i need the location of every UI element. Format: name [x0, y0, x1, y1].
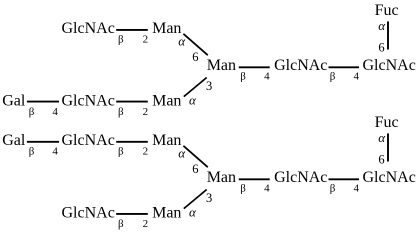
svg-text:β: β — [118, 218, 124, 230]
svg-text:4: 4 — [264, 71, 270, 83]
svg-text:β: β — [118, 34, 124, 46]
svg-text:β: β — [29, 106, 35, 118]
residue Man (structure 2, core branching mannose) — [207, 169, 236, 186]
alpha1-6 branch diagonal wire (structure 2) — [183, 146, 207, 167]
position label 2 (structure 2, 6-arm linkage) — [143, 146, 149, 158]
residue Fuc (structure 2, core fucose) — [375, 114, 399, 131]
residue Man (structure 1, 6-arm) — [152, 20, 181, 37]
svg-text:Fuc: Fuc — [375, 114, 399, 131]
svg-text:GlcNAc: GlcNAc — [363, 57, 416, 74]
alpha1-6 fucose vertical wire (structure 2) — [387, 133, 389, 161]
anomeric label beta (structure 1, 3-arm linkage) — [118, 106, 124, 118]
svg-text:Man: Man — [152, 20, 181, 37]
svg-text:GlcNAc: GlcNAc — [274, 169, 327, 186]
beta1-2 linkage line (structure 2, 6-arm GlcNAc-Man) — [116, 141, 148, 143]
position label 2 (structure 1, 6-arm linkage) — [143, 34, 149, 46]
svg-text:α: α — [189, 92, 197, 107]
anomeric label alpha (structure 2, fucose linkage) — [378, 130, 386, 145]
beta1-4 linkage line (structure 1, Gal-GlcNAc) — [27, 101, 59, 103]
beta1-2 linkage line (structure 2, 3-arm GlcNAc-Man) — [116, 213, 148, 215]
svg-text:Man: Man — [207, 57, 236, 74]
svg-text:α: α — [378, 130, 386, 145]
svg-text:6: 6 — [192, 50, 198, 64]
svg-text:4: 4 — [354, 183, 360, 195]
svg-text:β: β — [240, 183, 246, 195]
svg-text:4: 4 — [52, 106, 58, 118]
position label 4 (structure 2, Gal linkage) — [52, 146, 58, 158]
svg-text:GlcNAc: GlcNAc — [363, 169, 416, 186]
anomeric label beta (structure 1, core Man linkage) — [240, 71, 246, 83]
beta1-2 linkage line (structure 1, 6-arm GlcNAc-Man) — [116, 29, 148, 31]
anomeric label beta (structure 2, 6-arm linkage) — [118, 146, 124, 158]
svg-text:α: α — [378, 18, 386, 33]
beta1-4 linkage line (structure 2, Gal-GlcNAc) — [27, 141, 59, 143]
svg-text:Man: Man — [152, 93, 181, 110]
residue GlcNAc (structure 1, reducing-end GlcNAc) — [363, 57, 416, 74]
position label 4 (structure 2, core Man linkage) — [264, 183, 270, 195]
svg-text:3: 3 — [206, 191, 212, 205]
svg-text:β: β — [118, 106, 124, 118]
position label 4 (structure 1, core GlcNAc linkage) — [354, 71, 360, 83]
svg-text:GlcNAc: GlcNAc — [62, 20, 115, 37]
svg-text:2: 2 — [143, 218, 149, 230]
residue GlcNAc (structure 1, core GlcNAc II) — [274, 57, 327, 74]
residue Man (structure 1, 3-arm) — [152, 93, 181, 110]
svg-text:β: β — [330, 71, 336, 83]
svg-text:Fuc: Fuc — [375, 2, 399, 19]
anomeric label beta (structure 1, Gal linkage) — [29, 106, 35, 118]
position label 6 (structure 1, fucose linkage) — [378, 40, 384, 54]
anomeric label alpha (structure 1, alpha1-6 branch) — [178, 34, 186, 49]
svg-text:3: 3 — [206, 79, 212, 93]
alpha1-3 branch diagonal wire (structure 1) — [184, 78, 207, 97]
anomeric label beta (structure 1, 6-arm linkage) — [118, 34, 124, 46]
svg-text:6: 6 — [192, 162, 198, 176]
anomeric label beta (structure 2, core Man linkage) — [240, 183, 246, 195]
anomeric label alpha (structure 2, alpha1-6 branch) — [178, 146, 186, 161]
beta1-4 linkage line (structure 1, Man-GlcNAc core) — [239, 66, 270, 68]
position label 2 (structure 2, 3-arm linkage) — [143, 218, 149, 230]
svg-text:6: 6 — [378, 152, 384, 166]
residue GlcNAc (structure 2, 6-arm) — [62, 132, 115, 149]
residue Man (structure 2, 3-arm) — [152, 205, 181, 222]
residue Gal (structure 1, 3-arm) — [2, 93, 26, 110]
svg-text:GlcNAc: GlcNAc — [62, 132, 115, 149]
residue Man (structure 2, 6-arm) — [152, 132, 181, 149]
residue GlcNAc (structure 2, 3-arm) — [62, 205, 115, 222]
svg-text:Man: Man — [207, 169, 236, 186]
svg-text:GlcNAc: GlcNAc — [274, 57, 327, 74]
residue Man (structure 1, core branching mannose) — [207, 57, 236, 74]
svg-text:Gal: Gal — [2, 132, 26, 149]
svg-text:4: 4 — [354, 71, 360, 83]
position label 6 (structure 2, alpha1-6 branch) — [192, 162, 198, 176]
position label 3 (structure 1, alpha1-3 branch) — [206, 79, 212, 93]
position label 4 (structure 2, core GlcNAc linkage) — [354, 183, 360, 195]
svg-text:Man: Man — [152, 132, 181, 149]
svg-text:Gal: Gal — [2, 93, 26, 110]
anomeric label alpha (structure 1, fucose linkage) — [378, 18, 386, 33]
beta1-4 linkage line (structure 2, Man-GlcNAc core) — [239, 178, 270, 180]
svg-text:2: 2 — [143, 34, 149, 46]
svg-text:GlcNAc: GlcNAc — [62, 205, 115, 222]
svg-text:α: α — [189, 204, 197, 219]
anomeric label beta (structure 2, 3-arm linkage) — [118, 218, 124, 230]
residue GlcNAc (structure 2, core GlcNAc II) — [274, 169, 327, 186]
position label 4 (structure 1, core Man linkage) — [264, 71, 270, 83]
residue Fuc (structure 1, core fucose) — [375, 2, 399, 19]
residue Gal (structure 2, 6-arm) — [2, 132, 26, 149]
position label 6 (structure 1, alpha1-6 branch) — [192, 50, 198, 64]
svg-text:Man: Man — [152, 205, 181, 222]
residue GlcNAc (structure 2, reducing-end GlcNAc) — [363, 169, 416, 186]
svg-text:GlcNAc: GlcNAc — [62, 93, 115, 110]
anomeric label beta (structure 2, core GlcNAc linkage) — [330, 183, 336, 195]
anomeric label alpha (structure 2, alpha1-3 branch) — [189, 204, 197, 219]
svg-text:6: 6 — [378, 40, 384, 54]
svg-text:β: β — [330, 183, 336, 195]
svg-text:2: 2 — [143, 106, 149, 118]
beta1-2 linkage line (structure 1, 3-arm GlcNAc-Man) — [116, 101, 148, 103]
svg-text:β: β — [29, 146, 35, 158]
alpha1-6 fucose vertical wire (structure 1) — [387, 21, 389, 49]
anomeric label alpha (structure 1, alpha1-3 branch) — [189, 92, 197, 107]
position label 4 (structure 1, Gal linkage) — [52, 106, 58, 118]
svg-text:2: 2 — [143, 146, 149, 158]
residue GlcNAc (structure 1, 6-arm) — [62, 20, 115, 37]
position label 2 (structure 1, 3-arm linkage) — [143, 106, 149, 118]
beta1-4 linkage line (structure 1, GlcNAc-GlcNAc core) — [329, 66, 360, 68]
alpha1-3 branch diagonal wire (structure 2) — [184, 190, 207, 209]
svg-text:β: β — [118, 146, 124, 158]
alpha1-6 branch diagonal wire (structure 1) — [183, 34, 207, 55]
anomeric label beta (structure 1, core GlcNAc linkage) — [330, 71, 336, 83]
residue GlcNAc (structure 1, 3-arm) — [62, 93, 115, 110]
position label 3 (structure 2, alpha1-3 branch) — [206, 191, 212, 205]
svg-text:4: 4 — [52, 146, 58, 158]
svg-text:4: 4 — [264, 183, 270, 195]
svg-text:β: β — [240, 71, 246, 83]
position label 6 (structure 2, fucose linkage) — [378, 152, 384, 166]
beta1-4 linkage line (structure 2, GlcNAc-GlcNAc core) — [329, 178, 360, 180]
anomeric label beta (structure 2, Gal linkage) — [29, 146, 35, 158]
